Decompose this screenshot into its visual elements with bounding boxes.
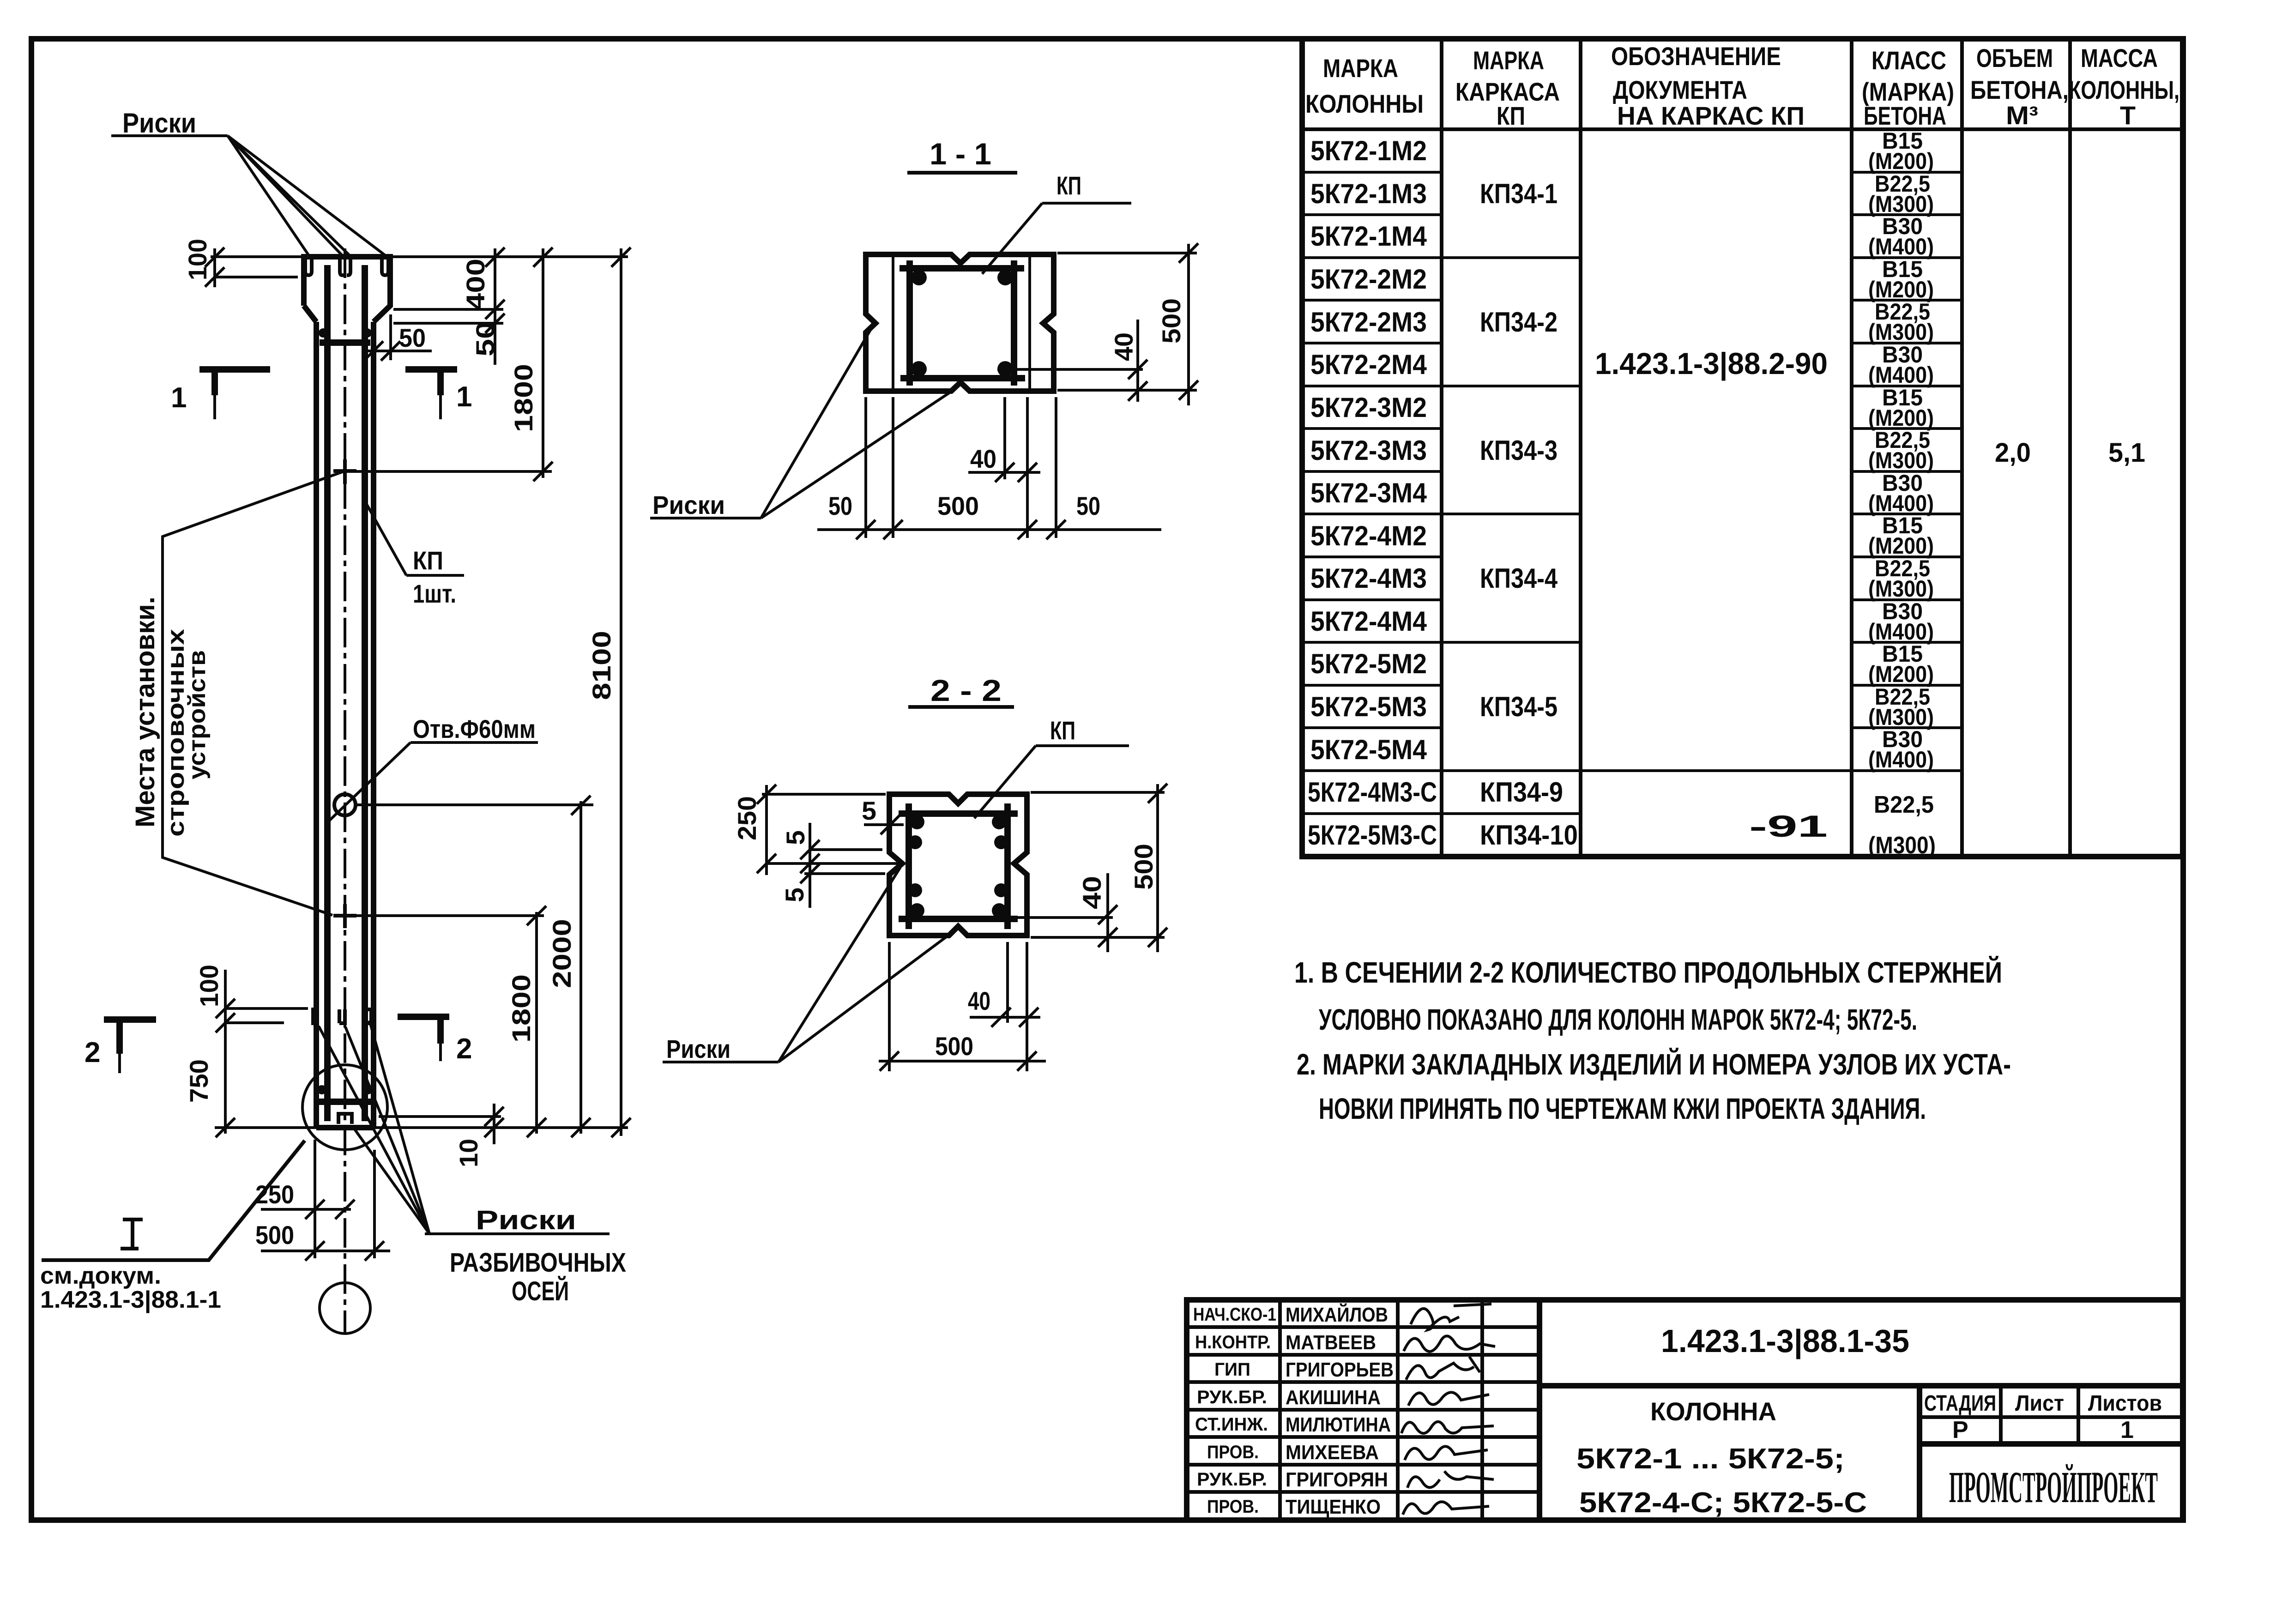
svg-text:2000: 2000 [547, 919, 576, 988]
dim 50 under head line [367, 350, 432, 352]
svg-text:КП34-2: КП34-2 [1480, 307, 1558, 338]
table col2 cells [1480, 178, 1578, 851]
leader Riski to notch 4 [228, 136, 385, 255]
section 2-2 ext top left [762, 793, 886, 796]
svg-text:250: 250 [255, 1180, 294, 1209]
section 2-2 dim 5 top line [864, 823, 904, 826]
svg-text:СТ.ИНЖ.: СТ.ИНЖ. [1195, 1414, 1268, 1435]
column head top riska notch left [305, 260, 312, 275]
svg-text:(М200): (М200) [1868, 148, 1934, 174]
col4 row lines [1852, 172, 1962, 728]
left rebar line [324, 265, 331, 1121]
svg-text:КОЛОННА: КОЛОННА [1650, 1397, 1776, 1426]
table column line col4/col5 [1960, 39, 1964, 857]
signature table labels [1193, 1304, 1276, 1517]
leader bottom riski 3 [369, 1020, 429, 1234]
dim vertical 100-750 bottom-left [224, 970, 227, 1134]
section 1-1 stirrup top bar [899, 265, 1024, 272]
table column line col5/col6 [2068, 39, 2072, 857]
section 1-1 ext vertical outer left [864, 397, 867, 538]
section 1-1 dim 40 bottom line [968, 471, 1040, 474]
svg-text:5К72-3М4: 5К72-3М4 [1310, 477, 1427, 508]
svg-text:КОЛОННЫ,: КОЛОННЫ, [2069, 75, 2179, 104]
svg-text:ПРОМСТРОЙПРОЕКТ: ПРОМСТРОЙПРОЕКТ [1949, 1462, 2158, 1512]
dim vertical 1800 lower [535, 912, 538, 1134]
svg-text:100: 100 [183, 239, 212, 280]
svg-text:(М200): (М200) [1868, 533, 1934, 559]
svg-text:Места установки.: Места установки. [130, 597, 160, 827]
section 2-2 bar dot left mid2 [908, 883, 922, 897]
bottom riska level line left upper [225, 1007, 308, 1010]
signature table row lines [1187, 1327, 1539, 1492]
svg-text:500: 500 [255, 1220, 294, 1250]
bottom riska mark right [366, 1009, 371, 1023]
hole level line [356, 803, 593, 806]
signature scribble 7 [1407, 1471, 1494, 1488]
svg-text:РАЗБИВОЧНЫХ: РАЗБИВОЧНЫХ [450, 1248, 626, 1278]
svg-text:2: 2 [456, 1033, 472, 1065]
svg-text:1800: 1800 [509, 364, 538, 432]
section 1-1 KP leader [982, 203, 1042, 274]
section 2-2 riski leader to bottom notch [779, 929, 957, 1062]
svg-text:5К72-1 ... 5К72-5;: 5К72-1 ... 5К72-5; [1576, 1443, 1845, 1475]
section 1-1 bottom dim line 50-500-50 [817, 528, 1161, 531]
title block bottom edge [1187, 1517, 2183, 1523]
svg-text:см.докум.: см.докум. [40, 1262, 161, 1289]
table col1 cells [1308, 135, 1437, 851]
detail circle bottom assembly [302, 1065, 387, 1150]
column head top riska notch right [382, 260, 388, 275]
section 2-2 ext vertical right bottom [1026, 942, 1028, 1071]
section 2-2 dim 40 bottom line [970, 1016, 1040, 1019]
svg-text:МИЛЮТИНА: МИЛЮТИНА [1286, 1413, 1391, 1436]
svg-text:1.423.1-3|88.1-35: 1.423.1-3|88.1-35 [1661, 1323, 1909, 1359]
column head top riska notch center pair [340, 260, 350, 275]
section 2-2 riski underline [663, 1061, 779, 1063]
svg-text:500: 500 [935, 1032, 973, 1061]
section 2-2 stirrup top bar [899, 810, 1018, 817]
shaft right edge [371, 322, 376, 1128]
svg-text:1.423.1-3|88.1-1: 1.423.1-3|88.1-1 [40, 1286, 221, 1313]
column head outline [304, 257, 390, 322]
svg-text:ПРОВ.: ПРОВ. [1207, 1442, 1259, 1462]
svg-text:МИХАЙЛОВ: МИХАЙЛОВ [1286, 1303, 1388, 1326]
section 1-1 corner bar dot TR [997, 270, 1013, 285]
section 2-2 ext vertical rebar bottom [1006, 942, 1009, 1023]
section 2-2 riski leader to left notch [779, 867, 900, 1062]
svg-text:5: 5 [781, 830, 810, 845]
leader bottom riski 4 [353, 1127, 429, 1234]
bottom riska mark center pair [339, 1009, 345, 1023]
section mark 2 right [398, 1017, 449, 1044]
svg-text:(М200): (М200) [1868, 661, 1934, 687]
leader strop devices polyline [163, 471, 344, 915]
svg-text:40: 40 [1077, 876, 1106, 909]
svg-text:БЕТОНА: БЕТОНА [1864, 101, 1946, 130]
ext vertical right shaft bottom [373, 1150, 376, 1258]
svg-text:2: 2 [85, 1037, 100, 1069]
table col4 merged cell B22,5 (M300) [1868, 791, 1936, 859]
svg-text:1: 1 [171, 382, 187, 414]
section 1-1 ext vertical inner left [892, 397, 894, 538]
svg-text:5К72-5М3: 5К72-5М3 [1310, 691, 1427, 722]
svg-text:1800: 1800 [507, 974, 536, 1043]
svg-text:В22,5: В22,5 [1874, 791, 1934, 818]
svg-text:5К72-4М2: 5К72-4М2 [1310, 520, 1427, 551]
base point circle [320, 1283, 370, 1334]
section 2-2 bar dot BL [910, 903, 924, 918]
section 1-1 concrete outline with notches [866, 254, 1054, 391]
svg-text:50: 50 [471, 321, 500, 356]
leader KP to rebar [367, 504, 406, 575]
section mark 1 right [405, 369, 457, 395]
table column line col1/col2 [1440, 39, 1443, 857]
svg-text:1. В СЕЧЕНИИ 2-2 КОЛИЧЕСТВО ПР: 1. В СЕЧЕНИИ 2-2 КОЛИЧЕСТВО ПРОДОЛЬНЫХ С… [1294, 955, 2002, 989]
section 1-1 ext vertical rebar bottom [1003, 397, 1006, 479]
dim vertical 400-50 [494, 248, 496, 365]
svg-text:5К72-5М2: 5К72-5М2 [1310, 648, 1427, 679]
svg-text:КП34-3: КП34-3 [1480, 435, 1558, 466]
dim 100 top-left vertical [213, 248, 216, 287]
svg-text:5: 5 [862, 796, 876, 825]
tick [205, 248, 224, 267]
signature scribble 8 [1403, 1502, 1489, 1515]
table header bottom line [1302, 127, 2183, 131]
table col4 concrete class cells [1868, 128, 1934, 773]
ext line head bottom right [393, 308, 503, 311]
section 2-2 ext notch level left [766, 862, 899, 865]
svg-text:40: 40 [1109, 332, 1138, 361]
section 2-2 line below notch [804, 872, 885, 875]
section 2-2 bar dot TL [910, 815, 924, 829]
list-listov divider [2077, 1386, 2080, 1444]
right rebar line [362, 265, 368, 1121]
svg-text:5К72-3М2: 5К72-3М2 [1310, 392, 1427, 423]
leader Riski to notch 1 [228, 136, 308, 255]
bottom riska mark left [313, 1009, 319, 1023]
svg-text:5К72-2М4: 5К72-2М4 [1310, 349, 1427, 380]
svg-text:5К72-4М3-С: 5К72-4М3-С [1308, 777, 1437, 808]
svg-text:НАЧ.СКО-1: НАЧ.СКО-1 [1193, 1304, 1276, 1325]
section 2-2 ext bottom right [1031, 936, 1165, 939]
svg-text:8100: 8100 [587, 631, 616, 700]
section 1-1 riski leader to left notch [761, 326, 873, 518]
svg-text:НА КАРКАС КП: НА КАРКАС КП [1617, 101, 1805, 130]
svg-text:ГИП: ГИП [1214, 1359, 1250, 1380]
table column line col2/col3 [1579, 39, 1582, 857]
svg-text:250: 250 [732, 796, 761, 840]
svg-text:Риски: Риски [476, 1205, 576, 1235]
section 2-2 stirrup right bar [1004, 803, 1011, 929]
riska ext below head [389, 314, 392, 360]
svg-text:1.423.1-3|88.2-90: 1.423.1-3|88.2-90 [1595, 346, 1828, 381]
section 1-1 riski leader to bottom notch [761, 388, 957, 518]
section 2-2 stirrup bottom bar [899, 916, 1018, 922]
svg-text:5К72-4-С; 5К72-5-С: 5К72-4-С; 5К72-5-С [1579, 1487, 1867, 1519]
svg-text:50: 50 [399, 323, 426, 352]
dim vertical 10 [493, 1104, 495, 1144]
dim vertical 2000 [580, 801, 582, 1134]
section 2-2 bar dot right mid1 [994, 835, 1008, 849]
lifting loop top left dot [319, 328, 328, 338]
signature table names [1286, 1303, 1394, 1518]
table header text col1 [1305, 54, 1424, 118]
svg-text:5К72-1М2: 5К72-1М2 [1310, 135, 1427, 166]
svg-text:Листов: Листов [2088, 1391, 2162, 1416]
svg-text:КП34-9: КП34-9 [1480, 777, 1563, 808]
svg-text:МИХЕЕВА: МИХЕЕВА [1286, 1441, 1379, 1464]
strop cross mark lower [333, 904, 356, 928]
svg-text:КП: КП [1056, 171, 1081, 200]
svg-text:РУК.БР.: РУК.БР. [1197, 1387, 1267, 1407]
section 1-1 ext vertical inner right [1026, 397, 1029, 538]
dim vertical 1800 upper [542, 248, 544, 478]
col1 row lines [1302, 172, 1962, 814]
svg-text:Риски: Риски [666, 1034, 730, 1063]
svg-text:50: 50 [1076, 491, 1100, 520]
svg-text:ОСЕЙ: ОСЕЙ [512, 1276, 569, 1306]
svg-text:КП34-1: КП34-1 [1480, 178, 1558, 209]
title block divider under designation [1539, 1383, 2183, 1389]
svg-text:МАТВЕЕВ: МАТВЕЕВ [1286, 1331, 1376, 1354]
bottom riska level line left lower [225, 1021, 284, 1024]
svg-text:2. МАРКИ ЗАКЛАДНЫХ ИЗДЕЛИЙ И Н: 2. МАРКИ ЗАКЛАДНЫХ ИЗДЕЛИЙ И НОМЕРА УЗЛО… [1297, 1047, 2011, 1081]
lifting loop bottom left dot [317, 1085, 326, 1094]
svg-text:1: 1 [2120, 1417, 2134, 1443]
section 1-1 title underline [907, 171, 1017, 175]
signature scribble 5 [1401, 1422, 1494, 1433]
strop2 level line [356, 914, 544, 917]
svg-text:5К72-3М3: 5К72-3М3 [1310, 435, 1427, 466]
svg-text:5,1: 5,1 [2108, 438, 2145, 468]
svg-text:750: 750 [184, 1059, 213, 1103]
svg-text:УСЛОВНО ПОКАЗАНО ДЛЯ КОЛОНН МА: УСЛОВНО ПОКАЗАНО ДЛЯ КОЛОНН МАРОК 5К72-4… [1319, 1003, 1917, 1036]
table grid [1302, 39, 2183, 857]
svg-text:(М300): (М300) [1868, 319, 1934, 345]
svg-text:40: 40 [968, 986, 990, 1015]
svg-text:(М300): (М300) [1868, 576, 1934, 602]
svg-text:2 - 2: 2 - 2 [930, 673, 1002, 707]
signature scribble 4 [1408, 1392, 1489, 1406]
node I symbol [121, 1220, 143, 1249]
stadiya header underline [1920, 1415, 2183, 1419]
svg-text:ГРИГОРЯН: ГРИГОРЯН [1286, 1468, 1388, 1491]
title block right edge [2180, 1300, 2185, 1520]
label Riski bottom underline [425, 1232, 610, 1235]
svg-text:КП34-10: КП34-10 [1480, 820, 1578, 851]
svg-text:МАССА: МАССА [2081, 43, 2158, 72]
section 2-2 dim 40 right vertical [1106, 873, 1109, 952]
ext line risk level left [215, 276, 298, 278]
label Riski top underline [111, 134, 228, 137]
section 2-2 KP leader [974, 746, 1036, 818]
svg-text:5К72-2М3: 5К72-2М3 [1310, 307, 1427, 338]
section 1-1 corner bar dot TL [911, 270, 927, 285]
label Otv underline [411, 741, 538, 744]
section 1-1 right ext top [1057, 252, 1197, 254]
table header text col3 [1611, 42, 1805, 130]
table header text col6 [2069, 43, 2179, 130]
svg-text:(М400): (М400) [1868, 234, 1934, 260]
svg-text:40: 40 [970, 444, 996, 473]
svg-text:АКИШИНА: АКИШИНА [1286, 1386, 1381, 1409]
section 2-2 bar dot left mid1 [908, 835, 922, 849]
table header text col5 [1970, 43, 2069, 130]
svg-text:КОЛОННЫ: КОЛОННЫ [1305, 89, 1424, 118]
section 2-2 bar dot BR [992, 903, 1007, 918]
table header text col2 [1455, 46, 1560, 130]
table column line col3/col4 [1850, 39, 1853, 857]
svg-text:5К72-4М3: 5К72-4М3 [1310, 563, 1427, 594]
section 1-1 ext rebar level right [997, 368, 1143, 371]
section 2-2 ext rebar level right [996, 916, 1113, 919]
bottom level long line [215, 1126, 628, 1129]
svg-text:М³: М³ [2006, 101, 2038, 130]
svg-text:1шт.: 1шт. [413, 579, 456, 608]
svg-text:500: 500 [1129, 844, 1158, 890]
svg-text:МАРКА: МАРКА [1473, 46, 1544, 75]
section 2-2 KP underline [1036, 744, 1129, 747]
leader bottom riski 2 [345, 1027, 429, 1234]
signature scribble 2 [1404, 1336, 1495, 1352]
svg-text:5К72-2М2: 5К72-2М2 [1310, 264, 1427, 295]
title block main box left edge [1537, 1300, 1542, 1520]
svg-text:КП34-4: КП34-4 [1480, 563, 1558, 594]
svg-text:5К72-5М4: 5К72-5М4 [1310, 734, 1427, 765]
strop cross mark upper [333, 459, 356, 484]
section 2-2 vertical line for 5 dims [809, 823, 811, 908]
svg-text:НОВКИ ПРИНЯТЬ ПО ЧЕРТЕЖАМ КЖИ: НОВКИ ПРИНЯТЬ ПО ЧЕРТЕЖАМ КЖИ ПРОЕКТА ЗД… [1319, 1092, 1926, 1125]
dim 500 line [261, 1250, 390, 1252]
svg-text:РУК.БР.: РУК.БР. [1197, 1469, 1267, 1490]
svg-text:500: 500 [1157, 298, 1186, 344]
svg-text:Риски: Риски [122, 108, 196, 139]
section 1-1 inner strip line right [1028, 254, 1031, 391]
svg-text:5К72-1М4: 5К72-1М4 [1310, 221, 1427, 252]
bottom center riska bracket [338, 1114, 352, 1124]
svg-text:БЕТОНА,: БЕТОНА, [1970, 75, 2069, 104]
leader Riski to notch 3 [228, 136, 349, 255]
section mark 2 left [104, 1020, 156, 1054]
section 2-2 concrete outline with notches [889, 794, 1027, 936]
svg-text:ГРИГОРЬЕВ: ГРИГОРЬЕВ [1286, 1358, 1394, 1381]
section 1-1 dim 500 right vertical [1187, 244, 1190, 405]
svg-text:Лист: Лист [2015, 1391, 2064, 1416]
section 2-2 dim 500 bottom line [879, 1060, 1046, 1063]
section 1-1 stirrup left bar [906, 260, 913, 386]
line 10 above bottom right [379, 1115, 501, 1118]
title block vertical divider stadiya [1917, 1386, 1922, 1520]
dim 250 line [261, 1208, 351, 1211]
svg-text:КП: КП [413, 546, 443, 575]
svg-text:(М400): (М400) [1868, 747, 1934, 773]
top level line [211, 255, 628, 258]
leader Riski to notch 2 [228, 136, 342, 255]
section 1-1 dim 40 right vertical [1136, 320, 1139, 402]
section 1-1 ext vertical outer right [1055, 397, 1057, 538]
section 1-1 corner bar dot BR [997, 361, 1013, 377]
svg-text:ОБОЗНАЧЕНИЕ: ОБОЗНАЧЕНИЕ [1611, 42, 1781, 71]
signature table outline [1187, 1300, 1539, 1520]
table header text col4 [1862, 46, 1954, 130]
signature table col line 1 [1278, 1300, 1282, 1520]
section 1-1 corner bar dot BL [911, 361, 927, 377]
section 1-1 stirrup bottom bar [900, 375, 1025, 381]
svg-text:400: 400 [461, 259, 490, 310]
label KP underline [406, 574, 464, 577]
svg-text:100: 100 [194, 965, 223, 1007]
svg-text:ДОКУМЕНТА: ДОКУМЕНТА [1613, 75, 1747, 104]
leader Otv to hole [327, 743, 411, 823]
section 1-1 stirrup right bar [1011, 260, 1017, 386]
lifting loop top bar [320, 339, 370, 346]
dim vertical 8100 [620, 248, 622, 1136]
center axis dash-dot [344, 248, 346, 1334]
signature scribble 6 [1405, 1446, 1488, 1460]
svg-text:ОБЪЕМ: ОБЪЕМ [1976, 43, 2053, 72]
svg-text:-91: -91 [1749, 809, 1828, 843]
svg-text:Отв.Ф60мм: Отв.Ф60мм [413, 714, 536, 743]
svg-text:КП: КП [1050, 716, 1075, 745]
svg-text:Н.КОНТР.: Н.КОНТР. [1195, 1332, 1271, 1352]
lifting loop top right dot [362, 328, 372, 338]
section 1-1 right ext bottom [1057, 389, 1197, 392]
svg-text:устройств: устройств [184, 650, 211, 779]
svg-text:5К72-5М3-С: 5К72-5М3-С [1308, 820, 1437, 851]
svg-text:10: 10 [454, 1139, 483, 1167]
section 2-2 bar dot right mid2 [994, 883, 1008, 897]
svg-text:(М300): (М300) [1868, 832, 1936, 859]
svg-text:МАРКА: МАРКА [1323, 54, 1398, 83]
signature scribble 3 [1406, 1357, 1480, 1380]
stadiya-list divider [1999, 1386, 2003, 1444]
svg-text:КЛАСС: КЛАСС [1871, 46, 1946, 75]
node reference line [42, 1141, 305, 1260]
section 2-2 line above notch [811, 848, 882, 851]
section 2-2 title underline [908, 705, 1014, 709]
ext line shaft top right [393, 322, 503, 325]
section mark 1 left [199, 369, 270, 395]
hole Otv F60 circle [334, 794, 356, 815]
svg-text:2,0: 2,0 [1995, 438, 2031, 468]
svg-text:5К72-1М3: 5К72-1М3 [1310, 178, 1427, 209]
svg-text:5К72-4М4: 5К72-4М4 [1310, 606, 1427, 637]
svg-text:(М400): (М400) [1868, 362, 1934, 388]
svg-text:1: 1 [456, 381, 472, 413]
title block top edge [1539, 1297, 2183, 1303]
section 1-1 KP underline [1042, 202, 1131, 205]
svg-text:50: 50 [828, 491, 852, 520]
table outer border [1302, 39, 2183, 857]
section 2-2 bar dot TR [992, 815, 1007, 829]
svg-text:ПРОВ.: ПРОВ. [1207, 1497, 1259, 1517]
leader bottom riski 1 [319, 1026, 429, 1234]
section 1-1 inner strip line left [892, 254, 894, 391]
strop1 level line [352, 470, 552, 473]
lifting loop bottom right dot [363, 1085, 373, 1094]
section 2-2 ext top right [1031, 791, 1165, 794]
shaft bottom edge [316, 1125, 374, 1130]
signature scribble 1 [1411, 1304, 1491, 1330]
ext vertical left of axis bottom [314, 1140, 316, 1258]
section 2-2 dim 250 vertical [765, 785, 768, 875]
section 2-2 stirrup left bar [906, 803, 912, 929]
svg-text:(М300): (М300) [1868, 447, 1934, 473]
section 2-2 dim 500 right vertical [1156, 784, 1159, 952]
section 1-1 riski underline [650, 517, 761, 519]
svg-text:Риски: Риски [652, 490, 725, 519]
shaft left edge [314, 322, 319, 1128]
